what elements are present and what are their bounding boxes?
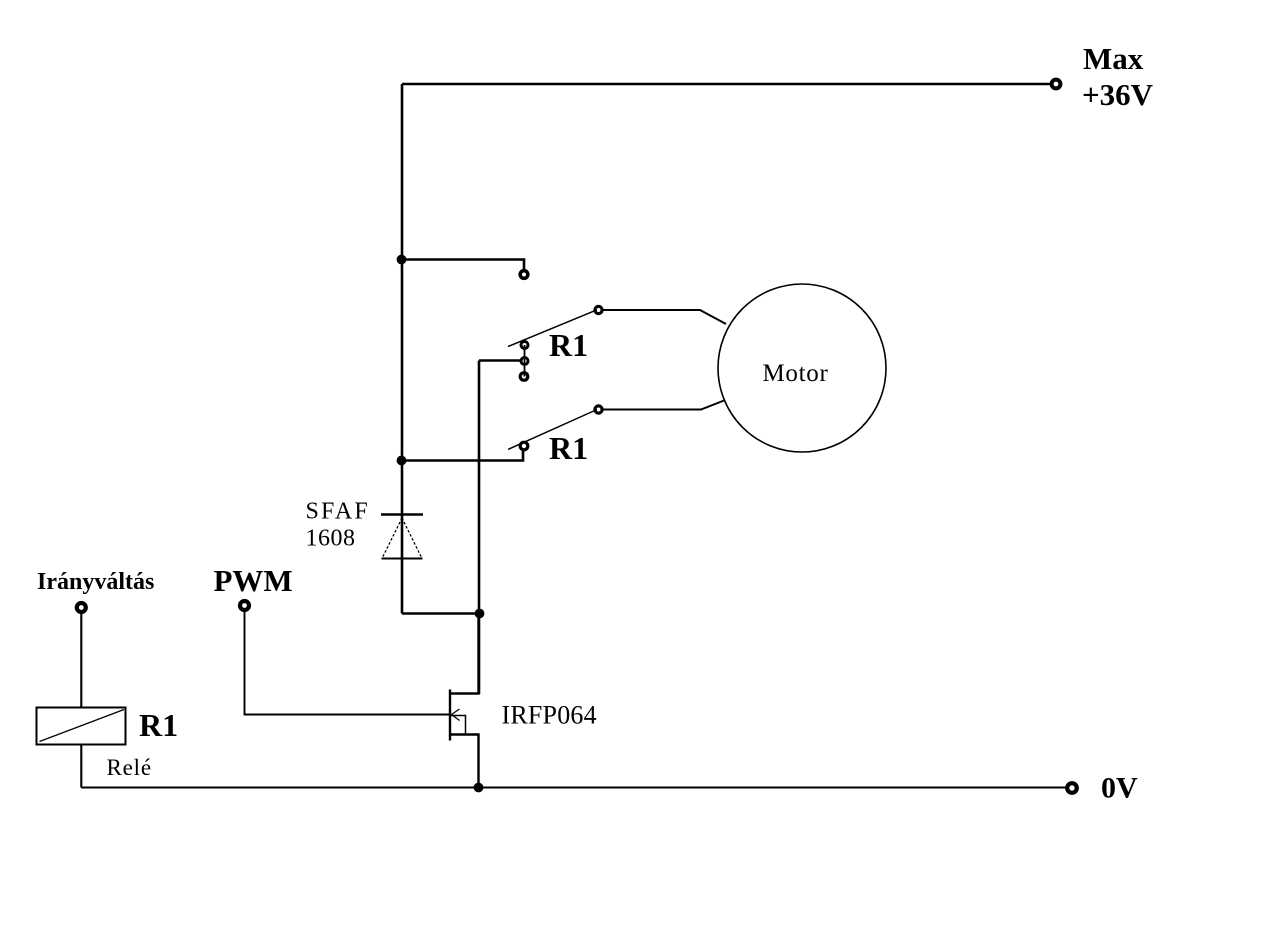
svg-text:Max: Max [1083, 41, 1144, 76]
switch fixed contact bottom [520, 442, 528, 450]
wire motor bottom lead [603, 401, 724, 410]
transistor Q1 source loop [451, 716, 466, 735]
junction at 479.5,613.5 [475, 609, 485, 619]
svg-text:PWM: PWM [214, 563, 293, 598]
terminal Iranyvaltas [77, 603, 86, 612]
relay contact stack: circle B [521, 358, 528, 365]
wire left vertical main [401, 84, 404, 614]
relay contact stack: circle C [520, 373, 528, 381]
junction at 402,460 [397, 456, 407, 466]
wire diode bottom to drain node [402, 612, 480, 615]
wire lower contact row [402, 451, 523, 461]
diode D1 triangle base [382, 558, 423, 560]
switch arm R1 top [508, 310, 597, 347]
junction at 478.5,787.5 [474, 783, 484, 793]
transistor Q1 gate arrow upper stroke [452, 709, 460, 715]
wire PWM to gate [245, 610, 451, 715]
terminal Max +36V [1052, 80, 1061, 89]
svg-text:Motor: Motor [763, 360, 829, 387]
switch contact top right [595, 306, 602, 313]
wire motor top lead [603, 310, 726, 324]
motor M1 [718, 284, 886, 452]
svg-text:Irányváltás: Irányváltás [37, 569, 154, 595]
diode D1 cathode bar [381, 513, 423, 516]
relay contact stack: circle A [521, 342, 528, 349]
svg-text:Relé: Relé [107, 755, 152, 780]
terminal upper contact [520, 271, 528, 279]
wire connecting contact stack [524, 345, 526, 377]
transistor Q1 drain tab [450, 614, 479, 694]
wire from middle contact to drain column [479, 359, 520, 362]
svg-text:R1: R1 [139, 707, 178, 743]
relay K1 coil box [37, 708, 126, 745]
diode D1 triangle side left [382, 518, 402, 559]
transistor Q1 IRFP064 channel bar [449, 690, 451, 741]
svg-text:0V: 0V [1101, 772, 1138, 805]
wire branch to upper contact terminal [402, 260, 524, 270]
svg-text:SFAF: SFAF [306, 499, 370, 525]
relay K1 coil diagonal [40, 710, 125, 742]
diode D1 triangle side right [402, 518, 422, 559]
transistor Q1 source tab [450, 735, 479, 788]
svg-text:R1: R1 [549, 430, 588, 466]
svg-text:1608: 1608 [306, 526, 356, 552]
switch contact bottom right [595, 406, 602, 413]
svg-text:IRFP064: IRFP064 [502, 701, 597, 730]
switch arm R1 bottom [508, 410, 597, 450]
wire drain column vertical [478, 361, 481, 695]
transistor Q1 gate arrow lower stroke [452, 715, 460, 721]
svg-text:R1: R1 [549, 327, 588, 363]
wire bottom rail 0V [81, 786, 1066, 788]
terminal PWM [240, 601, 249, 610]
wire top rail +36V [402, 83, 1050, 86]
wire relay coil to 0V rail [80, 745, 82, 788]
svg-text:+36V: +36V [1082, 77, 1154, 112]
junction at 402,260 [397, 255, 407, 265]
wire Iranyvaltas to relay coil [80, 612, 82, 708]
terminal 0V [1067, 783, 1077, 793]
